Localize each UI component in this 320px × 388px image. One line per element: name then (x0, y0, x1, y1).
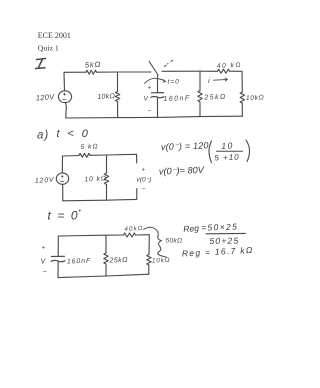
svg-text:ECE 2001: ECE 2001 (38, 31, 71, 40)
svg-text:−: − (43, 269, 47, 276)
svg-text:−: − (142, 186, 146, 193)
svg-text:t = 0: t = 0 (48, 209, 80, 223)
svg-text:40 kΩ: 40 kΩ (217, 62, 242, 70)
svg-text:5kΩ: 5kΩ (85, 60, 102, 70)
svg-text:10kΩ: 10kΩ (97, 93, 116, 101)
svg-text:v(0⁻) = 120: v(0⁻) = 120 (161, 140, 209, 152)
svg-text:40kΩ: 40kΩ (124, 225, 143, 233)
svg-text:25kΩ: 25kΩ (203, 94, 226, 102)
svg-text:a): a) (37, 130, 49, 142)
svg-text:160nF: 160nF (163, 95, 191, 103)
svg-text:v(0⁻): v(0⁻) (137, 177, 152, 184)
svg-text:10 kΩ: 10 kΩ (84, 175, 107, 183)
svg-text:+: + (42, 245, 46, 252)
svg-text:50×25: 50×25 (207, 221, 238, 232)
svg-text:120V: 120V (36, 92, 56, 102)
svg-text:5 kΩ: 5 kΩ (80, 143, 98, 151)
svg-text:50+25: 50+25 (209, 235, 239, 246)
svg-text:Quiz 1: Quiz 1 (38, 43, 59, 52)
svg-text:25kΩ: 25kΩ (108, 257, 128, 265)
svg-text:50kΩ: 50kΩ (166, 238, 183, 245)
svg-text:10: 10 (221, 140, 234, 151)
svg-text:+: + (78, 209, 82, 215)
svg-text:+: + (142, 168, 146, 174)
svg-text:−: − (148, 108, 152, 115)
svg-text:10kΩ: 10kΩ (246, 94, 265, 102)
svg-text:t < 0: t < 0 (57, 128, 91, 140)
svg-text:160nF: 160nF (67, 258, 92, 266)
svg-text:V: V (144, 96, 149, 103)
svg-text:t=0: t=0 (168, 79, 180, 86)
svg-text:+: + (148, 86, 152, 92)
svg-text:Reɡ =: Reɡ = (183, 222, 207, 234)
svg-text:10kΩ: 10kΩ (152, 257, 171, 265)
svg-text:5 +10: 5 +10 (214, 153, 240, 163)
svg-text:v(0⁻)= 80V: v(0⁻)= 80V (159, 165, 205, 177)
svg-text:120V: 120V (35, 177, 56, 185)
